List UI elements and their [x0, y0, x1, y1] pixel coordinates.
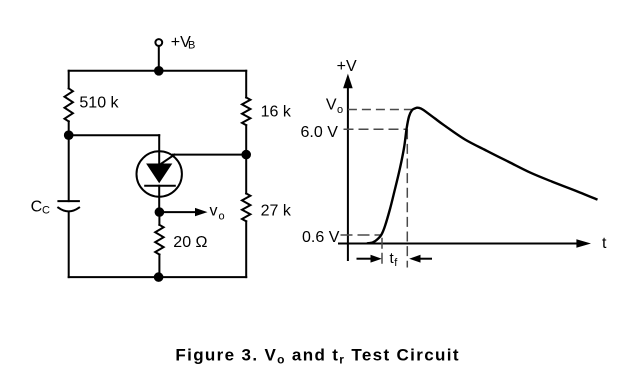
wire bottom rail	[69, 276, 247, 278]
wire right branch lower	[245, 221, 247, 277]
svg-text:+V: +V	[337, 58, 357, 75]
wire diode cathode down	[158, 186, 160, 212]
dashed level line 0.6V	[341, 234, 382, 236]
wire node to diode (vertical)	[158, 135, 160, 163]
tf right arrow	[419, 258, 432, 260]
svg-text:6.0 V: 6.0 V	[301, 124, 339, 141]
svg-text:0.6 V: 0.6 V	[302, 229, 340, 246]
svg-text:16 k: 16 k	[261, 104, 292, 121]
tf left arrow	[357, 258, 373, 260]
dashed vertical line at 6.0V crossing	[406, 129, 408, 267]
graph y-axis	[347, 86, 349, 261]
svg-text:510 k: 510 k	[79, 95, 119, 112]
resistor R 16k	[242, 98, 250, 126]
dashed level line 6.0V	[344, 128, 407, 130]
junction dot 16k-27k node	[241, 150, 251, 160]
svg-text:C: C	[42, 205, 50, 217]
svg-text:t: t	[602, 235, 607, 252]
junction dot 510k node	[64, 130, 74, 140]
photodiode D1 anode diagonal lead	[162, 155, 175, 164]
graph x-axis	[338, 243, 578, 245]
capacitor CC top plate	[58, 200, 79, 202]
resistor R 20 ohm	[155, 225, 163, 255]
arrow vo output	[159, 211, 196, 213]
resistor R 27k	[242, 194, 250, 222]
dashed vertical line at tf start	[381, 238, 383, 266]
photodiode D1 circle	[137, 151, 182, 196]
wire 20 ohm to bottom rail	[158, 255, 160, 278]
svg-text:Figure 3. Vo and tr Test Circu: Figure 3. Vo and tr Test Circuit	[175, 345, 459, 366]
capacitor CC curved bottom plate	[58, 208, 79, 212]
waveform curve	[367, 108, 598, 244]
svg-text:20 Ω: 20 Ω	[173, 234, 207, 251]
svg-text:o: o	[337, 104, 343, 116]
svg-text:B: B	[188, 40, 195, 52]
svg-text:v: v	[210, 203, 218, 220]
photodiode D1 triangle	[146, 164, 172, 184]
svg-text:C: C	[31, 199, 43, 216]
junction dot bottom rail	[154, 272, 164, 282]
wire terminal to top rail	[158, 46, 160, 71]
svg-text:27 k: 27 k	[261, 203, 292, 220]
wire right branch upper	[245, 71, 247, 98]
svg-text:V: V	[326, 97, 337, 114]
wire left branch middle	[68, 121, 70, 201]
terminal +VB	[155, 39, 162, 46]
wire vo node to resistor	[158, 212, 160, 225]
wire right branch middle	[245, 125, 247, 193]
dashed level line Vo	[348, 109, 417, 111]
wire top rail	[69, 70, 247, 72]
resistor R 510k	[65, 88, 73, 121]
wire diode to right node	[173, 154, 246, 156]
wire left branch lower	[68, 213, 70, 278]
wire node to diode (horizontal)	[69, 134, 160, 136]
svg-text:o: o	[219, 210, 225, 222]
junction dot vo node	[155, 207, 165, 217]
photodiode D1 cathode bar	[145, 185, 175, 187]
junction dot top rail	[154, 66, 164, 76]
wire left branch upper	[68, 71, 70, 89]
